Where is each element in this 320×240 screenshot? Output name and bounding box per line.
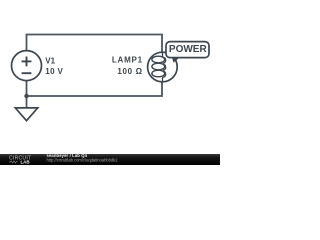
svg-text:10 V: 10 V: [45, 67, 63, 76]
svg-text:POWER: POWER: [169, 44, 208, 55]
svg-text:LAMP1: LAMP1: [112, 56, 143, 65]
svg-text:V1: V1: [45, 57, 55, 66]
svg-text:100 Ω: 100 Ω: [117, 67, 142, 76]
svg-text:LAB: LAB: [21, 159, 30, 164]
svg-text:http://circuitlab.com/c/eqdati: http://circuitlab.com/c/eqdatinoahb8dk2: [47, 157, 119, 162]
